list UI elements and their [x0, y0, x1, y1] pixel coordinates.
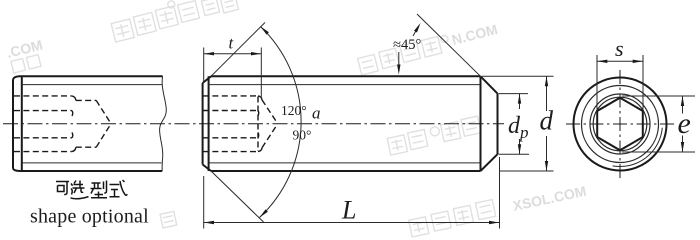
- hex socket bottom hidden line: [14, 151, 71, 153]
- point face: [497, 94, 499, 155]
- svg-text:shape optional: shape optional: [30, 206, 149, 228]
- chamfer edge vertical: [208, 76, 210, 171]
- watermark tile top-center CJK: [109, 0, 239, 42]
- svg-text:p: p: [519, 123, 529, 142]
- e arrow top: [681, 96, 684, 106]
- caption 可选型式 (hand strokes): [56, 180, 127, 199]
- chamfer extension diagonal bottom-left: [211, 171, 264, 222]
- L arrow left: [204, 221, 214, 224]
- outer circle (major dia): [574, 78, 667, 171]
- 45deg leader arrow lower: [397, 65, 400, 75]
- left face: [202, 83, 204, 165]
- vertical centerline: [619, 70, 621, 178]
- svg-text:a: a: [312, 104, 321, 123]
- d dimension line: [546, 76, 548, 111]
- watermark latin bottom (YIJINSOL.COM): [511, 183, 587, 214]
- 45deg leader to top line: [398, 52, 400, 71]
- dp extension lines: [499, 94, 530, 155]
- t dim arrow left: [204, 52, 214, 55]
- point chamfer bottom: [481, 154, 498, 171]
- socket fillet bottom: [258, 148, 262, 152]
- socket chamfer circle: [590, 94, 650, 154]
- svg-text:s: s: [615, 36, 624, 61]
- thread crest line bottom: [209, 162, 480, 164]
- t dim arrow right: [251, 52, 261, 55]
- thread crest line bottom: [22, 162, 162, 164]
- watermark tile bottom-center CJK: [408, 200, 496, 237]
- dp arrow bottom: [518, 144, 521, 154]
- left face: [12, 80, 14, 169]
- bottom outline: [20, 170, 163, 172]
- watermark tile top-right of middle view: [357, 21, 500, 75]
- 可: [56, 182, 69, 195]
- thread crest line top: [209, 84, 480, 86]
- d arrow bottom: [545, 161, 548, 171]
- drill cone lower generator: [96, 124, 111, 147]
- point chamfer top: [481, 76, 498, 93]
- L arrow right: [489, 221, 499, 224]
- hex socket: [597, 98, 643, 151]
- angle arc arrow bottom: [258, 209, 268, 218]
- dp dimension line segments: [519, 94, 521, 109]
- hex corner top hidden line: [203, 110, 258, 112]
- drill cone lower generator: [262, 124, 278, 148]
- watermark tile top-left (.COM): [5, 37, 47, 74]
- 式: [110, 180, 128, 197]
- svg-text:90°: 90°: [293, 128, 312, 143]
- drill circle: [593, 97, 647, 151]
- top outline: [20, 75, 163, 77]
- hex corner top hidden line: [14, 110, 72, 112]
- thread crest line top: [22, 84, 162, 86]
- hex corner end hook bottom: [257, 133, 260, 138]
- svg-text:N.COM: N.COM: [450, 21, 499, 48]
- e dimension line: [682, 96, 684, 114]
- socket bottom fillet bottom: [71, 147, 75, 151]
- s arrow right: [633, 60, 643, 63]
- hex socket top hidden line: [14, 95, 71, 97]
- hex corner bottom hidden line: [14, 137, 72, 139]
- chamfer edge vertical: [21, 76, 23, 171]
- top outline: [211, 75, 481, 77]
- d extension lines: [482, 76, 554, 171]
- hex corner bottom hidden line: [203, 137, 258, 139]
- svg-text:d: d: [540, 106, 554, 136]
- hex corner end hook top: [257, 111, 260, 116]
- t dimension line: [204, 53, 261, 55]
- L dimension line: [204, 222, 499, 224]
- 选: [71, 181, 89, 199]
- hex socket bottom hidden line: [203, 151, 258, 153]
- hex corner end hook bottom: [71, 132, 74, 137]
- socket fillet top: [258, 96, 262, 100]
- svg-text:XSOL.COM: XSOL.COM: [511, 183, 587, 214]
- e extension lines: [622, 96, 695, 152]
- horizontal centerline: [566, 123, 677, 125]
- svg-text:≈45°: ≈45°: [393, 37, 421, 53]
- s extension lines: [597, 55, 643, 110]
- 45deg leader arrow upper: [414, 22, 422, 32]
- svg-text:L: L: [341, 195, 356, 224]
- bottom outline: [211, 170, 481, 172]
- common centerline of left and middle view: [3, 123, 504, 125]
- drill cone upper generator: [96, 100, 111, 123]
- d arrow top: [545, 76, 548, 86]
- dp arrow top: [518, 94, 521, 104]
- hex corner end hook top: [71, 111, 74, 116]
- socket bottom vertical hidden: [257, 97, 259, 152]
- angle arc arrow top: [259, 25, 269, 34]
- L extension lines: [204, 157, 500, 229]
- break line: [160, 76, 167, 171]
- watermark small fragment left-bottom of left view: [160, 211, 177, 228]
- left chamfer top: [203, 76, 211, 83]
- thread runout vertical: [480, 76, 482, 171]
- drill hole top hidden line: [76, 99, 96, 101]
- drill cone upper generator: [262, 100, 278, 123]
- watermark tile middle CJK: [387, 116, 482, 155]
- thread root partial arc: [613, 128, 663, 167]
- s dimension line: [597, 60, 642, 62]
- chamfer circle: [582, 86, 659, 163]
- 45deg leader to diagonal: [413, 26, 419, 37]
- drill hole bottom hidden line: [76, 146, 96, 148]
- top corner round: [13, 76, 20, 79]
- svg-text:e: e: [678, 107, 691, 140]
- s arrow left: [597, 60, 607, 63]
- t dimension extension lines: [204, 48, 262, 99]
- svg-text:t: t: [229, 34, 235, 53]
- chamfer extension diagonal top-left: [211, 23, 265, 77]
- socket bottom fillet top: [71, 96, 75, 101]
- hex socket top hidden line: [203, 95, 258, 97]
- left chamfer bottom: [203, 165, 211, 172]
- bottom corner round: [13, 169, 20, 172]
- point chamfer extension diagonal: [417, 14, 481, 76]
- cone angle dimension arc: [260, 27, 302, 218]
- 型: [91, 181, 108, 198]
- e arrow bottom: [681, 142, 684, 152]
- svg-text:120°: 120°: [281, 103, 307, 118]
